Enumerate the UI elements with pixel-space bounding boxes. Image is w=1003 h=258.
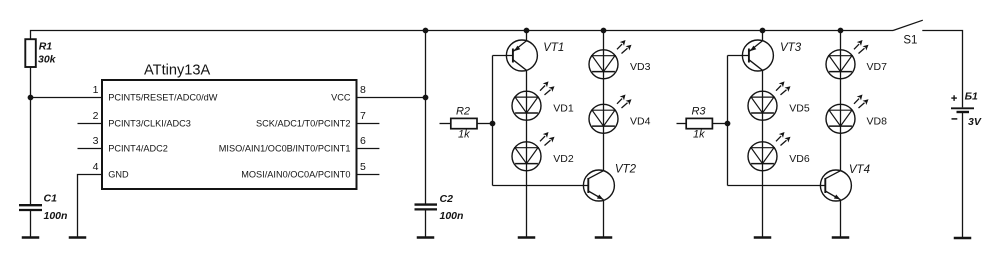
ground (battery) xyxy=(954,237,972,239)
wire VD1 to VD2 xyxy=(526,120,528,142)
node VT3 emitter on top bus xyxy=(760,28,766,34)
ground (VT4) xyxy=(832,237,850,239)
svg-text:VT1: VT1 xyxy=(543,42,564,54)
wire battery to ground xyxy=(962,112,964,238)
LED VD8 xyxy=(826,95,869,134)
svg-text:C1: C1 xyxy=(44,193,58,205)
wire top bus to VD7 xyxy=(840,31,842,50)
pin 3 stub xyxy=(78,148,103,150)
capacitor C1 xyxy=(19,205,42,210)
wire R1 bottom to node xyxy=(30,67,32,98)
svg-text:ATtiny13A: ATtiny13A xyxy=(144,62,211,78)
svg-text:1k: 1k xyxy=(693,129,705,141)
svg-text:R3: R3 xyxy=(691,105,706,117)
svg-text:3: 3 xyxy=(93,135,99,147)
wire C2 to ground xyxy=(425,209,427,237)
svg-text:VT4: VT4 xyxy=(849,164,870,176)
svg-text:8: 8 xyxy=(360,84,366,96)
node VD7 on top bus xyxy=(838,28,844,34)
wire VT3 base xyxy=(728,55,750,57)
wire VD3 to VD4 xyxy=(603,79,605,105)
ground (pin 4) xyxy=(69,237,87,239)
LED VD2 xyxy=(512,132,555,171)
LED VD5 xyxy=(748,81,791,120)
svg-text:VD8: VD8 xyxy=(867,116,888,128)
resistor R3 xyxy=(677,118,728,128)
pin 2 stub xyxy=(78,123,103,125)
svg-text:MISO/AIN1/OC0B/INT0/PCINT1: MISO/AIN1/OC0B/INT0/PCINT1 xyxy=(219,143,351,153)
svg-text:100n: 100n xyxy=(440,210,464,222)
switch S1 lever xyxy=(893,20,923,30)
svg-text:R1: R1 xyxy=(39,41,53,53)
wire C1 to ground xyxy=(30,210,32,238)
svg-text:S1: S1 xyxy=(903,35,917,47)
pin 4 wire GND xyxy=(78,175,103,238)
node VCC on top bus xyxy=(423,28,429,34)
node VT1 emitter on top bus xyxy=(524,28,530,34)
wire base bus left (vertical) xyxy=(492,56,494,186)
LED VD1 xyxy=(512,81,555,120)
wire VD8 to VT4 collector xyxy=(840,133,842,170)
svg-text:2: 2 xyxy=(93,110,99,122)
svg-text:R2: R2 xyxy=(456,105,470,117)
svg-text:VD7: VD7 xyxy=(867,61,888,73)
LED VD6 xyxy=(748,132,791,171)
wire VD2 to ground xyxy=(526,171,528,238)
node R2/base bus xyxy=(490,121,496,127)
wire top bus to VT1 emitter xyxy=(526,31,528,41)
wire top bus to VT3 emitter xyxy=(762,31,764,41)
svg-text:VCC: VCC xyxy=(331,92,351,102)
svg-text:VD5: VD5 xyxy=(789,103,810,115)
wire VT3 collector to VD5 xyxy=(762,70,764,91)
wire VT4 emitter to ground xyxy=(840,200,842,238)
wire VT2 base xyxy=(493,185,589,187)
wire top bus to VD3 xyxy=(603,31,605,50)
wire VD7 to VD8 xyxy=(840,79,842,105)
svg-text:MOSI/AIN0/OC0A/PCINT0: MOSI/AIN0/OC0A/PCINT0 xyxy=(241,169,350,179)
svg-text:VD4: VD4 xyxy=(630,116,651,128)
svg-text:6: 6 xyxy=(360,135,366,147)
ground (C1) xyxy=(22,237,40,239)
label + (battery) xyxy=(951,95,957,101)
svg-text:1: 1 xyxy=(93,84,99,96)
svg-text:VD1: VD1 xyxy=(553,103,574,115)
battery B1 plus plate xyxy=(951,107,974,109)
wire VCC vertical xyxy=(425,31,427,205)
wire top supply bus (left section) xyxy=(31,31,894,40)
LED VD4 xyxy=(589,95,632,134)
svg-text:1k: 1k xyxy=(458,129,470,141)
svg-text:SCK/ADC1/T0/PCINT2: SCK/ADC1/T0/PCINT2 xyxy=(256,118,350,128)
ground (C2) xyxy=(417,237,435,239)
wire VD4 to VT2 collector xyxy=(603,133,605,170)
svg-text:PCINT4/ADC2: PCINT4/ADC2 xyxy=(108,143,168,153)
wire VT4 base xyxy=(728,185,826,187)
wire switch to battery corner xyxy=(922,31,962,108)
svg-text:GND: GND xyxy=(108,169,129,179)
svg-text:100n: 100n xyxy=(44,210,68,222)
wire node to C1 xyxy=(30,98,32,205)
svg-text:7: 7 xyxy=(360,110,366,122)
IC U1 ATtiny13A box xyxy=(102,80,357,189)
wire VT2 emitter to ground xyxy=(603,200,605,238)
svg-text:3V: 3V xyxy=(968,116,982,128)
wire VD6 to ground xyxy=(762,171,764,238)
svg-text:PCINT5/RESET/ADC0/dW: PCINT5/RESET/ADC0/dW xyxy=(108,92,218,102)
ground (VT2) xyxy=(595,237,613,239)
battery B1 minus plate xyxy=(957,111,970,113)
transistor VT3 xyxy=(742,40,773,71)
wire node to pin 1 xyxy=(31,97,103,99)
svg-text:VD3: VD3 xyxy=(630,61,651,73)
node VD3 on top bus xyxy=(601,28,607,34)
svg-text:VT3: VT3 xyxy=(780,42,802,54)
svg-text:30k: 30k xyxy=(38,54,57,66)
svg-text:VD6: VD6 xyxy=(789,153,810,165)
transistor VT2 xyxy=(583,170,614,201)
wire pin 8 to VCC node xyxy=(357,97,426,99)
wire VT1 collector to VD1 xyxy=(526,70,528,91)
svg-text:5: 5 xyxy=(360,161,366,173)
wire VD5 to VD6 xyxy=(762,120,764,142)
svg-text:PCINT3/CLKI/ADC3: PCINT3/CLKI/ADC3 xyxy=(108,118,191,128)
svg-text:C2: C2 xyxy=(440,193,454,205)
transistor VT4 xyxy=(820,170,851,201)
svg-text:VD2: VD2 xyxy=(553,153,574,165)
node pin8/VCC xyxy=(423,95,429,101)
pin 7 stub xyxy=(357,123,380,125)
svg-text:4: 4 xyxy=(93,161,99,173)
ground (VD2) xyxy=(518,237,536,239)
ground (VD6) xyxy=(754,237,772,239)
LED VD7 xyxy=(826,40,869,79)
pin 5 stub xyxy=(357,174,380,176)
svg-text:VT2: VT2 xyxy=(615,164,637,176)
node R3/base bus xyxy=(725,121,731,127)
transistor VT1 xyxy=(506,40,537,71)
resistor R2 xyxy=(440,118,493,128)
wire VT1 base xyxy=(493,55,514,57)
node junction R1/pin1/C1 xyxy=(28,95,34,101)
pin 6 stub xyxy=(357,148,380,150)
resistor R1 xyxy=(25,39,36,67)
svg-text:Б1: Б1 xyxy=(965,91,978,103)
wire base bus right (vertical) xyxy=(727,56,729,186)
label - (battery) xyxy=(952,118,958,120)
LED VD3 xyxy=(589,40,632,79)
capacitor C2 xyxy=(415,205,438,210)
